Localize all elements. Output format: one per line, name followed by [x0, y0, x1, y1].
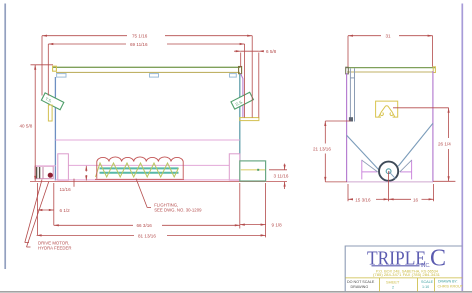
svg-text:16: 16: [413, 197, 419, 202]
svg-text:9 1/8: 9 1/8: [272, 223, 283, 228]
dim 40 5/8: [31, 65, 54, 181]
svg-text:6 1/2: 6 1/2: [60, 208, 71, 213]
svg-text:75 1/16: 75 1/16: [132, 34, 148, 39]
clip tab right: [230, 74, 237, 78]
drive motor leader: [25, 180, 49, 248]
dim 21 13/16: [325, 121, 350, 182]
cloud bottom line: [95, 178, 184, 180]
title block outline: [345, 246, 462, 292]
end right wall: [432, 71, 434, 182]
dim 3 11/16: [269, 164, 287, 189]
svg-text:C: C: [430, 246, 446, 272]
svg-text:2: 2: [392, 286, 394, 290]
left wall: [54, 77, 56, 181]
sheet bottom border: [0, 291, 472, 293]
logo TRIPLE C: [367, 246, 446, 272]
agitator leader red: [393, 107, 449, 109]
svg-text:40 5/8: 40 5/8: [20, 124, 33, 129]
base red tick left: [325, 181, 347, 183]
base line: [347, 181, 433, 183]
trough top pink line: [68, 164, 229, 166]
svg-text:INC.: INC.: [421, 263, 431, 269]
flighting tube teal lines: [100, 167, 179, 169]
separator: [345, 277, 462, 279]
discharge spout: [240, 161, 266, 181]
flighting leader: [136, 179, 151, 208]
svg-text:DRAWING: DRAWING: [351, 285, 369, 289]
auger radius line: [389, 171, 396, 179]
sheet left border: [4, 4, 6, 270]
dim 81 13/16: [37, 234, 266, 236]
left leg: [362, 160, 378, 180]
sheet right border: [461, 4, 463, 292]
auger circle: [379, 162, 398, 181]
svg-text:CHRIS KROUT: CHRIS KROUT: [438, 285, 464, 289]
clip tab left: [57, 74, 66, 78]
dim 31: [348, 36, 433, 67]
rail inner olive line: [56, 71, 240, 73]
right wall: [239, 74, 241, 181]
dim 75 1/16: [42, 36, 252, 118]
svg-text:66 3/16: 66 3/16: [137, 223, 153, 228]
svg-text:6 5/8: 6 5/8: [266, 49, 277, 54]
left bearing plate: [58, 154, 69, 180]
svg-text:3 11/16: 3 11/16: [274, 174, 289, 179]
revision cloud: [97, 157, 183, 179]
svg-text:SEE DWG. NO. 30-1209: SEE DWG. NO. 30-1209: [154, 208, 202, 213]
cell separators: [380, 278, 435, 292]
svg-text:HYDRA FEEDER: HYDRA FEEDER: [38, 246, 71, 251]
dim 26 1/4: [448, 108, 450, 182]
svg-text:DO NOT SCALE: DO NOT SCALE: [347, 280, 375, 284]
hopper V left: [347, 135, 379, 170]
dim 66 3/16: [54, 183, 240, 229]
svg-text:69 11/16: 69 11/16: [130, 42, 148, 47]
right angle bracket: [231, 92, 253, 109]
flighting zigzag: [96, 163, 179, 177]
right purple flare: [241, 74, 243, 118]
yellow support under left bracket: [48, 105, 52, 121]
long red bottom line: [30, 181, 287, 183]
mid pink line: [55, 139, 239, 141]
svg-text:15 3/16: 15 3/16: [355, 197, 371, 202]
rail top green line: [53, 66, 241, 68]
svg-text:DRAWN BY:: DRAWN BY:: [438, 280, 458, 284]
agitator bracket yellow: [376, 101, 398, 117]
end top green bar: [346, 67, 435, 69]
spout yellow line: [241, 169, 265, 171]
dim 15 3/16 and 16: [348, 171, 434, 201]
svg-text:SHEET: SHEET: [386, 280, 400, 285]
dim 6 1/2: [37, 183, 53, 235]
dim 69 11/16: [48, 44, 244, 118]
clip tab middle: [150, 74, 159, 78]
end left wall: [346, 73, 348, 182]
rail dark right corner: [239, 67, 242, 74]
svg-text:26 1/4: 26 1/4: [438, 142, 451, 147]
svg-text:21 13/16: 21 13/16: [313, 147, 331, 152]
channel dark cap: [349, 117, 353, 121]
rail yellow left cap: [53, 66, 57, 71]
left angle bracket: [41, 93, 63, 110]
right leg: [400, 160, 412, 180]
drive motor: [35, 166, 56, 179]
dim 9 1/8: [240, 183, 266, 237]
end bar right yellow cap: [433, 67, 435, 73]
yellow bar right: [240, 118, 259, 121]
hopper V right: [398, 123, 433, 166]
dim 6 5/8: [234, 51, 264, 117]
dim 11/16: [74, 166, 86, 187]
base red tick right: [433, 180, 455, 182]
svg-text:11/16: 11/16: [60, 187, 72, 192]
svg-text:(785) 284-3471 FAX (785) 284: (785) 284-3471 FAX (785) 284-3431: [373, 273, 440, 277]
spout green dot: [257, 169, 259, 171]
end bar left dark cap: [346, 67, 349, 74]
svg-text:81 13/16: 81 13/16: [138, 233, 156, 238]
channel: [350, 68, 354, 121]
auger inner circle: [386, 169, 391, 174]
logo underline: [372, 265, 420, 267]
svg-text:1:10: 1:10: [422, 285, 429, 289]
bottom pink line: [55, 179, 239, 181]
end top olive line: [347, 71, 434, 73]
right bearing plate: [229, 154, 240, 180]
svg-text:SCALE: SCALE: [421, 280, 434, 284]
svg-text:31: 31: [386, 34, 392, 39]
